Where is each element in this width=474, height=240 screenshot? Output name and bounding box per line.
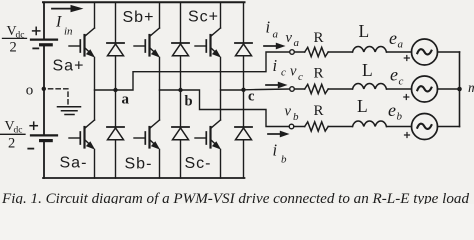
plus sign lower battery — [30, 122, 37, 129]
wire right bus — [459, 52, 461, 127]
label Iin — [55, 14, 73, 38]
svg-text:Sb-: Sb- — [125, 156, 153, 173]
diode Da+ — [107, 43, 124, 56]
svg-text:c: c — [298, 71, 303, 83]
arrow ic — [266, 82, 288, 89]
resistor R (phase b) — [305, 122, 329, 131]
plus sign upper battery — [33, 27, 40, 34]
wire Sc igbt column top — [220, 2, 222, 28]
wire leg-c midpoint tie — [221, 89, 244, 91]
svg-text:Sa+: Sa+ — [53, 58, 85, 75]
wire top rail — [43, 1, 245, 3]
plus sign source ea — [404, 56, 409, 61]
label eb — [388, 100, 403, 123]
label ib — [273, 141, 288, 166]
inductor L (phase c) — [353, 84, 387, 89]
svg-text:2: 2 — [10, 39, 17, 55]
plus sign source ec — [404, 95, 409, 100]
diode Db- — [172, 127, 189, 140]
svg-text:L: L — [359, 21, 370, 41]
wire phase c route — [244, 88, 290, 91]
svg-text:L: L — [357, 96, 368, 116]
svg-text:a: a — [398, 39, 404, 51]
wire diode-c column top — [243, 2, 245, 43]
svg-text:Fig. 1. Circuit diagram of a: Fig. 1. Circuit diagram of a PWM-VSI dri… — [1, 191, 470, 204]
svg-text:Sb+: Sb+ — [123, 9, 155, 26]
wire left dc rail lower — [43, 141, 45, 178]
label Vdc/2 lower — [5, 119, 23, 152]
label vb — [285, 104, 300, 123]
wire phase b route — [181, 90, 290, 127]
ground — [58, 107, 81, 115]
transistor Sa+ — [69, 28, 95, 58]
wire diode-b column middle — [180, 56, 182, 127]
label va — [286, 30, 300, 49]
diode Db+ — [172, 43, 189, 56]
svg-text:dc: dc — [14, 126, 23, 136]
wire dashed from node o — [49, 89, 69, 106]
svg-text:dc: dc — [16, 31, 25, 41]
svg-text:a: a — [273, 29, 279, 41]
minus sign lower battery — [28, 148, 33, 150]
wire row a mid — [328, 51, 352, 53]
svg-text:b: b — [293, 111, 299, 123]
label vc — [290, 64, 303, 84]
svg-text:i: i — [273, 56, 278, 75]
wire Sc igbt column middle — [220, 58, 222, 121]
svg-text:L: L — [362, 60, 373, 80]
svg-text:a: a — [294, 37, 300, 49]
label ia — [266, 18, 279, 41]
svg-text:i: i — [266, 18, 271, 37]
svg-text:b: b — [185, 94, 193, 110]
wire Sa igbt column top — [94, 2, 96, 28]
wire row a left — [294, 51, 304, 53]
svg-text:e: e — [389, 28, 397, 48]
wire row b to bus — [438, 126, 460, 128]
diode Dc+ — [235, 43, 252, 56]
node b — [178, 88, 182, 92]
arrow ia — [264, 43, 286, 50]
wire diode-b column bottom — [180, 140, 182, 178]
wire bottom rail — [43, 177, 245, 179]
transistor Sc- — [195, 120, 221, 150]
svg-text:R: R — [314, 103, 324, 119]
plus sign source eb — [405, 133, 410, 138]
Vdc/2 fraction bar lower — [0, 133, 25, 135]
svg-text:a: a — [122, 91, 130, 107]
diode Dc- — [235, 127, 252, 140]
wire left dc rail upper — [43, 2, 45, 38]
svg-text:c: c — [399, 76, 404, 88]
wire leg-b midpoint tie — [160, 89, 181, 91]
minus sign upper battery — [33, 47, 38, 49]
wire Sa igbt column middle — [94, 58, 96, 121]
inductor L (phase b) — [353, 121, 387, 126]
transistor Sb+ — [134, 28, 160, 58]
node a — [113, 88, 117, 92]
wire Sa igbt column bottom — [94, 150, 96, 179]
svg-text:I: I — [55, 14, 62, 31]
node vc terminal — [290, 87, 295, 92]
wire row c left — [294, 88, 304, 90]
wire row c right — [387, 88, 412, 90]
wire row c to bus — [438, 88, 460, 90]
source eb — [412, 114, 438, 140]
label ic — [273, 56, 287, 79]
svg-text:e: e — [388, 100, 396, 120]
wire Sc igbt column bottom — [220, 150, 222, 179]
wire diode-a column top — [115, 2, 117, 43]
node vb terminal — [289, 124, 294, 129]
wire diode-a column bottom — [115, 140, 117, 178]
wire row b right — [387, 126, 412, 128]
svg-text:b: b — [397, 111, 403, 123]
battery Vdc/2 upper — [31, 40, 57, 45]
wire diode-a column middle — [115, 56, 117, 127]
node c — [241, 88, 245, 92]
svg-text:Sa-: Sa- — [60, 155, 88, 172]
svg-text:m: m — [468, 81, 474, 96]
wire row b left — [294, 126, 305, 128]
transistor Sb- — [134, 120, 160, 150]
node va terminal — [290, 50, 295, 55]
resistor R (phase c) — [305, 84, 329, 93]
svg-text:b: b — [281, 154, 287, 166]
battery Vdc/2 lower — [31, 135, 57, 140]
diode Da- — [107, 127, 124, 140]
Vdc/2 fraction bar upper — [3, 37, 27, 39]
arrow Iin — [52, 5, 84, 12]
svg-text:R: R — [314, 66, 324, 82]
arrow ib — [268, 131, 290, 138]
svg-text:v: v — [285, 104, 292, 120]
inductor L (phase a) — [353, 47, 387, 52]
label ec — [390, 65, 404, 88]
wire Sb igbt column bottom — [159, 150, 161, 179]
wire row a to bus — [438, 51, 460, 53]
wire leg-a midpoint tie — [95, 89, 116, 91]
source ec — [412, 76, 438, 102]
svg-text:Sc-: Sc- — [185, 155, 212, 172]
wire left dc rail middle — [43, 45, 45, 134]
svg-text:o: o — [26, 83, 34, 99]
wire diode-c column bottom — [243, 140, 245, 178]
transistor Sa- — [69, 120, 95, 150]
node m — [457, 87, 462, 92]
svg-text:e: e — [390, 65, 398, 85]
svg-text:Sc+: Sc+ — [188, 9, 219, 26]
svg-text:v: v — [286, 30, 293, 46]
svg-text:i: i — [273, 141, 278, 160]
wire row a right — [387, 51, 412, 53]
svg-text:c: c — [248, 88, 255, 104]
svg-text:R: R — [314, 30, 324, 46]
wire diode-c column middle — [243, 56, 245, 127]
transistor Sc+ — [195, 28, 221, 58]
svg-text:v: v — [290, 64, 297, 80]
node o — [42, 87, 46, 91]
wire row b mid — [328, 126, 352, 128]
wire diode-b column top — [180, 2, 182, 43]
label Vdc/2 upper — [7, 24, 25, 55]
wire phase a route — [116, 52, 290, 90]
svg-text:in: in — [64, 26, 73, 38]
wire row c mid — [328, 88, 352, 90]
label ea — [389, 28, 404, 51]
wire Sb igbt column middle — [159, 58, 161, 121]
source ea — [412, 39, 438, 65]
svg-text:2: 2 — [8, 136, 15, 152]
svg-text:c: c — [281, 67, 286, 79]
resistor R (phase a) — [305, 47, 329, 56]
wire Sb igbt column top — [159, 2, 161, 28]
